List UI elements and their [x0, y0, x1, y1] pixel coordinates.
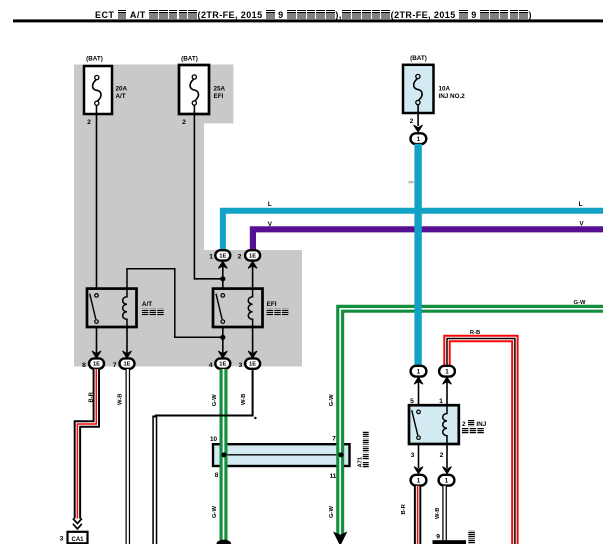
pin 2 label [440, 452, 444, 459]
svg-text:2: 2 [182, 119, 186, 126]
wire R-B [447, 339, 515, 544]
junction dot A71 left [221, 452, 226, 457]
connector 1 lower left [411, 475, 427, 486]
svg-text:1: 1 [209, 254, 213, 261]
injector connector bar [433, 540, 467, 544]
label B-R [89, 391, 95, 402]
label R-B [470, 330, 480, 336]
svg-text:(BAT): (BAT) [86, 56, 103, 63]
title rule [13, 19, 603, 22]
label G-W right vertical upper [329, 394, 335, 406]
svg-text:2: 2 [462, 421, 466, 428]
fuse 25A EFI [179, 56, 226, 126]
wire relay to connector 1E pin 4 [218, 327, 227, 358]
wire relay to connector 1E pin 7 [123, 327, 132, 358]
svg-text:1: 1 [417, 368, 421, 375]
wire W-B to injector [442, 486, 447, 541]
injector label [468, 531, 475, 544]
svg-text:20A: 20A [116, 85, 128, 92]
svg-text:L: L [579, 201, 583, 208]
svg-text:2: 2 [238, 254, 242, 261]
svg-text:EFI: EFI [267, 301, 277, 308]
wire INJ relay pin 3 down [414, 444, 423, 474]
svg-text:3: 3 [239, 362, 243, 369]
connector 1E pin 7 [113, 358, 135, 368]
label G-W lower [212, 506, 218, 518]
svg-text:10A: 10A [439, 86, 451, 93]
svg-text:4: 4 [209, 362, 213, 369]
label W-B [118, 394, 124, 405]
svg-text:8: 8 [82, 362, 86, 369]
connector stub bottom left green [217, 540, 232, 544]
wire V purple [253, 229, 603, 251]
svg-text:1E: 1E [219, 362, 226, 368]
svg-text:(BAT): (BAT) [181, 56, 198, 63]
svg-text:1: 1 [445, 368, 449, 375]
A/T relay [87, 288, 164, 328]
relay 2号INJ [409, 405, 487, 444]
svg-text:3: 3 [411, 452, 415, 459]
pin 1 label [439, 398, 443, 405]
svg-text:W-B: W-B [241, 394, 247, 405]
wire B-R to injector [414, 486, 421, 544]
svg-text:7: 7 [113, 362, 117, 369]
wire L cyan vertical from INJ fuse [414, 144, 421, 366]
wire INJ relay pin 2 down [443, 444, 452, 474]
label B-R lower [401, 503, 407, 514]
connector 1 upper left [411, 366, 427, 377]
connector 1E pin 8 [82, 358, 104, 368]
svg-text:5: 5 [410, 398, 414, 405]
connector 1 lower right [439, 475, 455, 486]
A71 pin 8 [215, 472, 219, 479]
svg-text:EFI: EFI [214, 93, 224, 100]
svg-text:(BAT): (BAT) [410, 55, 427, 62]
connector 1E pin 1 [209, 250, 230, 260]
svg-text:G-W: G-W [329, 394, 335, 406]
EFI relay [213, 288, 288, 328]
fuse 10A INJ NO.2 [403, 55, 465, 125]
label A71 junction connector [358, 431, 369, 468]
svg-text:W-B: W-B [118, 394, 124, 405]
wire W-B from connector 1E pin 7 [126, 369, 131, 544]
A71 pin 11 [330, 473, 337, 480]
connector 1E pin 4 [209, 358, 231, 368]
connector 1 upper right [439, 366, 455, 377]
wire into EFI relay pin 2 [248, 261, 257, 289]
wire INJ relay pin 5 up [414, 377, 423, 406]
wire fuse A/T pin2 to A/T relay [96, 105, 98, 289]
svg-text:1E: 1E [123, 362, 130, 368]
connector 1E pin 2 [238, 250, 260, 260]
svg-text:3: 3 [60, 535, 64, 542]
wire L cyan [223, 211, 603, 251]
label L right [579, 201, 583, 208]
svg-text:8: 8 [215, 472, 219, 479]
svg-text:G-W: G-W [329, 506, 335, 518]
svg-text:1: 1 [439, 398, 443, 405]
svg-text:1E: 1E [249, 254, 256, 260]
svg-text:R-B: R-B [470, 330, 480, 336]
label W-B mid [241, 394, 247, 405]
junction dot EFI feed [220, 276, 225, 281]
svg-text:CA1: CA1 [71, 537, 84, 543]
svg-text:1: 1 [417, 477, 421, 484]
svg-text:9: 9 [436, 534, 440, 541]
A71 pin 7 [332, 436, 336, 443]
svg-text:1E: 1E [249, 362, 256, 368]
svg-text:A/T: A/T [142, 301, 152, 308]
pin 3 label [411, 452, 415, 459]
svg-text:10: 10 [210, 436, 218, 443]
svg-text:INJ: INJ [476, 421, 486, 428]
svg-text:A/T: A/T [116, 93, 126, 100]
connector 1 below INJ fuse [411, 133, 427, 144]
connector 1E pin 3 [239, 358, 261, 368]
label G-W upper [212, 394, 218, 406]
connector CA1 [60, 532, 88, 544]
wire W-B from connector 1E pin 3 [155, 369, 253, 544]
svg-text:1E: 1E [93, 362, 100, 368]
junction connector A71 [213, 444, 350, 466]
svg-text:INJ NO.2: INJ NO.2 [439, 93, 466, 100]
wire G-W from connector 1E pin 4 [220, 369, 228, 540]
stray dot [254, 417, 256, 419]
svg-text:2: 2 [410, 118, 414, 125]
wire B-R to CA1 [77, 369, 96, 519]
junction dot A71 right [338, 452, 343, 457]
label L left [268, 201, 272, 208]
svg-text:A71: A71 [358, 456, 364, 467]
svg-text:L: L [268, 201, 272, 208]
A71 pin 10 [210, 436, 218, 443]
gray background panel [74, 65, 302, 367]
svg-text:1: 1 [445, 477, 449, 484]
title text [12, 10, 603, 20]
svg-text:G-W: G-W [212, 506, 218, 518]
splice mark [409, 181, 414, 183]
svg-text:B-R: B-R [89, 391, 95, 402]
fuse 20A A/T [84, 56, 128, 126]
svg-text:B-R: B-R [401, 503, 407, 514]
svg-text:W-B: W-B [435, 508, 441, 519]
arrow bottom right green [333, 532, 347, 544]
svg-text:G-W: G-W [212, 394, 218, 406]
svg-text:1E: 1E [219, 254, 226, 260]
label W-B lower [435, 508, 441, 519]
pin 9 label [436, 534, 440, 541]
svg-text:1: 1 [417, 136, 421, 143]
pin 5 label [410, 398, 414, 405]
wire fuse INJ pin2 [414, 105, 423, 133]
wire INJ relay pin 1 up [443, 377, 452, 406]
junction dot EFI output [220, 335, 225, 340]
svg-text:11: 11 [330, 473, 337, 480]
label G-W right vertical lower [329, 506, 335, 518]
label V left [268, 221, 273, 228]
svg-text:25A: 25A [214, 85, 226, 92]
svg-text:2: 2 [440, 452, 444, 459]
wire A/T relay coil to EFI relay output [127, 269, 221, 338]
wire into EFI relay pin 1 [218, 261, 227, 289]
label G-W top right [574, 300, 586, 306]
open arrow into CA1 [73, 519, 82, 529]
label V right [579, 220, 584, 227]
svg-text:2: 2 [87, 119, 91, 126]
wire relay to connector 1E pin 3 [248, 327, 257, 358]
wire G-W horizontal right [340, 309, 603, 537]
wire fuse EFI pin2 to EFI relay node [194, 105, 221, 279]
svg-text:7: 7 [332, 436, 336, 443]
svg-text:G-W: G-W [574, 300, 586, 306]
wire relay to connector 1E pin 8 [92, 327, 101, 358]
